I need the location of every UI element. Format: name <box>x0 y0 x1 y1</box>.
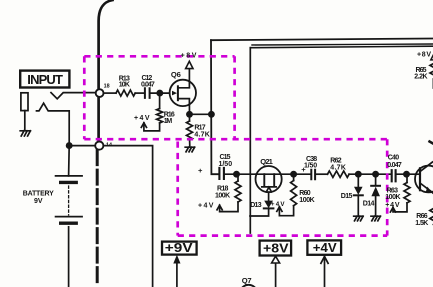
svg-text:+4V: +4V <box>198 202 214 209</box>
svg-text:D14: D14 <box>363 201 375 208</box>
svg-text:D13: D13 <box>250 202 261 209</box>
transistor Q (right edge) <box>415 166 433 193</box>
wire battery negative down <box>68 227 70 287</box>
wire rail through Q21 <box>256 173 294 175</box>
wire node to C38 <box>294 173 311 175</box>
resistor R63 100K <box>406 174 408 182</box>
+4V arrow (R18) <box>217 205 222 210</box>
node Q6 source <box>187 112 192 117</box>
svg-text:4.7K: 4.7K <box>330 164 346 171</box>
dashed highlight shared mid line <box>84 138 387 141</box>
wire +9V arrow <box>176 261 178 287</box>
ground (R17) <box>185 147 194 152</box>
svg-text:0.047: 0.047 <box>387 162 402 169</box>
diode D15 <box>354 187 363 195</box>
svg-text:1.5K: 1.5K <box>415 220 428 227</box>
wire junction to pin 14 <box>69 145 95 147</box>
ground (jack) <box>20 131 30 136</box>
wire R18 stub <box>237 174 239 181</box>
wire C38 to R62 <box>316 173 327 175</box>
wire vertical feed to C15 <box>211 40 218 174</box>
transistor Q7 (bottom, clipped) <box>240 285 258 287</box>
node on vertical feed <box>209 112 214 117</box>
svg-text:9V: 9V <box>34 198 43 205</box>
wire R16 bottom bracket to +4V arrow <box>144 123 160 131</box>
svg-text:C40: C40 <box>388 154 399 161</box>
wire inner box top <box>250 46 433 48</box>
node R63 <box>404 172 409 177</box>
transistor Q6 <box>170 80 196 106</box>
diode D14 <box>371 185 380 187</box>
svg-text:10K: 10K <box>119 82 130 89</box>
svg-text:Q7: Q7 <box>242 276 252 285</box>
wire jack lower contact arm <box>37 103 70 145</box>
wire R13 to C12 <box>135 92 144 94</box>
svg-text:18: 18 <box>104 84 110 90</box>
svg-text:INPUT: INPUT <box>27 72 63 87</box>
dashed highlight box A (input stage) <box>84 56 387 235</box>
ground (D14) <box>371 216 380 221</box>
pin 18 terminal <box>96 89 104 97</box>
wire mid top line <box>252 44 433 45</box>
wire jack sleeve to ground <box>24 111 26 130</box>
wire gate node down to R16 <box>159 93 161 108</box>
wire jack upper contact arm <box>51 93 96 99</box>
svg-text:1M: 1M <box>164 118 173 125</box>
wire Q6 source down <box>188 104 190 114</box>
svg-text:BATTERY: BATTERY <box>23 191 54 198</box>
wire pin18 to R13 <box>104 92 117 94</box>
jack tip contact J1 <box>21 93 28 111</box>
svg-text:+4V: +4V <box>385 202 400 209</box>
capacitor C38 1/50 <box>311 170 315 180</box>
resistor R60 100K <box>293 174 295 180</box>
svg-text:4.7K: 4.7K <box>194 131 209 138</box>
svg-text:+: + <box>198 166 203 175</box>
resistor R62 4.7K <box>328 171 350 177</box>
+9V box <box>162 242 197 255</box>
wire D14 stub <box>375 174 377 185</box>
wire +8V arrow <box>275 263 277 287</box>
svg-text:1/50: 1/50 <box>219 161 233 168</box>
node D15 <box>356 172 361 177</box>
svg-text:1/50: 1/50 <box>304 162 317 169</box>
svg-text:2.2K: 2.2K <box>414 73 427 80</box>
transistor Q21 <box>256 166 282 192</box>
wire outer top line <box>211 39 433 41</box>
dashed highlight box B (second stage) <box>176 142 179 236</box>
node Q6 gate <box>157 91 162 96</box>
battery BT1 9V <box>56 175 82 177</box>
resistor R13 10K <box>116 90 135 96</box>
capacitor C15 1/50 <box>219 168 224 179</box>
ground (D15) <box>354 216 363 221</box>
wire inner box left vertical <box>249 48 251 233</box>
wire C12 to gate node <box>151 92 170 94</box>
capacitor C40 0.047 <box>392 170 396 181</box>
svg-text:Q6: Q6 <box>171 70 181 79</box>
wire thick cable curve top <box>99 0 113 89</box>
+8V box <box>260 241 292 256</box>
svg-text:14: 14 <box>106 142 112 148</box>
svg-text:100K: 100K <box>385 194 400 201</box>
INPUT box <box>20 71 69 88</box>
wire source node to vertical feed <box>190 113 212 115</box>
svg-text:R18: R18 <box>217 185 228 192</box>
svg-text:0.047: 0.047 <box>141 82 155 89</box>
wire +4V arrow <box>324 257 326 287</box>
wire thick cable segment between pins <box>97 97 100 141</box>
wire C40 to Q base <box>397 173 420 175</box>
node junction battery/jack <box>67 143 72 148</box>
svg-text:D15: D15 <box>341 193 353 200</box>
wire fragment right edge <box>430 142 433 144</box>
wire thick dashed board edge below pin 14 <box>96 151 99 287</box>
svg-text:R66: R66 <box>416 213 427 220</box>
resistor R66 1.5K (clipped) <box>430 209 433 225</box>
resistor R16 1M <box>157 109 163 124</box>
+8V supply triangle <box>186 61 193 68</box>
node R18 junction <box>234 172 239 177</box>
diode D13 <box>264 201 273 209</box>
svg-text:+4V: +4V <box>313 240 337 255</box>
+4V arrow (R63) <box>390 207 395 212</box>
svg-text:C15: C15 <box>220 154 231 161</box>
wire pin14 to right then down <box>103 146 152 287</box>
node D14 <box>373 172 378 177</box>
+4V box <box>307 240 341 254</box>
svg-text:+4V: +4V <box>271 201 285 208</box>
capacitor C12 0.047 <box>145 88 150 98</box>
svg-text:R62: R62 <box>330 157 341 164</box>
svg-text:100K: 100K <box>215 192 230 199</box>
svg-text:+4V: +4V <box>134 115 150 122</box>
wire C15 to Q21 gate <box>225 173 256 175</box>
resistor R65 2.2K (clipped) <box>430 64 433 79</box>
wire R62 to C40 <box>349 173 391 175</box>
wire R18 bracket to +4V arrow <box>220 202 238 212</box>
resistor R18 100K <box>235 181 241 202</box>
svg-text:+9V: +9V <box>165 241 193 255</box>
+4V arrow (D13/R60) <box>277 207 282 212</box>
svg-text:R60: R60 <box>299 190 310 197</box>
+4V arrow (R16) <box>141 123 146 128</box>
svg-text:+8V: +8V <box>417 51 431 58</box>
wire R63 bracket to +4V arrow <box>393 203 407 212</box>
resistor R17 4.7K <box>187 121 193 140</box>
wire junction down to battery <box>68 146 71 176</box>
pin 14 terminal <box>95 142 103 150</box>
svg-text:Q21: Q21 <box>260 157 273 166</box>
svg-text:+8V: +8V <box>181 52 197 59</box>
wire D13 to box line <box>250 208 269 216</box>
wire Q6 drain to +8V <box>188 69 190 82</box>
svg-text:+8V: +8V <box>263 241 289 255</box>
svg-text:100K: 100K <box>299 197 314 204</box>
node Q21 drain <box>291 172 296 177</box>
+8V triangle (top right, clipped) <box>431 54 433 60</box>
wire R17 stub <box>189 114 191 121</box>
svg-text:+: + <box>301 165 306 174</box>
wire Q21 source to D13 <box>268 192 270 200</box>
wire D15 stub <box>357 174 359 186</box>
